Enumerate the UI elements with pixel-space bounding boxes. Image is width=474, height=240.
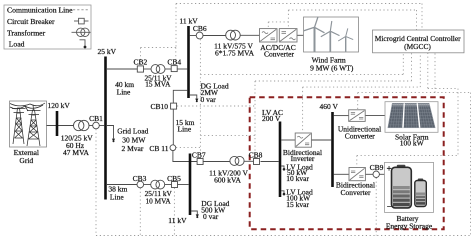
svg-text:15 MVA: 15 MVA	[145, 80, 171, 89]
svg-text:120 kV: 120 kV	[48, 101, 71, 110]
svg-text:CB3: CB3	[133, 174, 147, 183]
svg-text:CB5: CB5	[167, 174, 181, 183]
svg-text:Converter: Converter	[345, 132, 375, 141]
svg-text:15 kvar: 15 kvar	[286, 200, 309, 209]
svg-text:Line: Line	[117, 88, 131, 97]
svg-text:0 var: 0 var	[203, 212, 219, 221]
svg-text:600 kVA: 600 kVA	[214, 176, 241, 185]
svg-text:CB10: CB10	[150, 102, 168, 111]
svg-text:CB4: CB4	[167, 58, 181, 67]
svg-text:10 MVA: 10 MVA	[145, 196, 171, 205]
svg-text:CB7: CB7	[192, 150, 206, 159]
svg-text:25 kV: 25 kV	[98, 47, 117, 56]
svg-text:Grid Load: Grid Load	[117, 127, 148, 136]
svg-text:CB1: CB1	[89, 114, 103, 123]
svg-text:6*1.75 MVA: 6*1.75 MVA	[215, 49, 255, 58]
svg-text:Line: Line	[178, 125, 192, 134]
svg-text:9 MW (6 WT): 9 MW (6 WT)	[310, 63, 354, 72]
svg-text:Communication Line: Communication Line	[7, 6, 73, 15]
svg-text:Energy Storage: Energy Storage	[386, 222, 433, 231]
svg-text:2 Mvar: 2 Mvar	[122, 144, 144, 153]
svg-text:10 kvar: 10 kvar	[286, 174, 309, 183]
svg-text:0 var: 0 var	[201, 95, 217, 104]
svg-text:Grid: Grid	[19, 156, 33, 165]
svg-text:CB2: CB2	[134, 58, 148, 67]
svg-text:CB6: CB6	[193, 24, 207, 33]
svg-text:460 V: 460 V	[320, 102, 339, 111]
svg-text:Load: Load	[9, 39, 25, 48]
svg-text:CB8: CB8	[249, 150, 263, 159]
svg-text:11 kV: 11 kV	[168, 216, 187, 225]
svg-text:Circuit Breaker: Circuit Breaker	[7, 17, 55, 26]
svg-text:Transformer: Transformer	[7, 28, 46, 37]
svg-text:47 MVA: 47 MVA	[63, 148, 89, 157]
svg-text:CB9: CB9	[370, 163, 384, 172]
svg-text:100 kW: 100 kW	[400, 139, 425, 148]
svg-text:Converter: Converter	[264, 49, 294, 58]
svg-text:200 V: 200 V	[262, 114, 281, 123]
svg-text:(MGCC): (MGCC)	[404, 42, 431, 51]
svg-text:Line: Line	[110, 192, 124, 201]
svg-text:Converter: Converter	[341, 188, 371, 197]
svg-text:CB 11: CB 11	[149, 144, 168, 153]
